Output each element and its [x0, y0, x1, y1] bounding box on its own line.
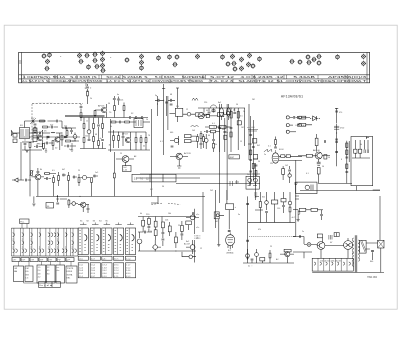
svg-text:3.0-2: 3.0-2: [102, 270, 106, 272]
svg-text:4k7: 4k7: [31, 118, 35, 120]
vert right: [295, 160, 297, 186]
svg-text:6.7-1: 6.7-1: [114, 276, 118, 278]
svg-text:5p6: 5p6: [69, 149, 72, 151]
ground p: [297, 220, 300, 222]
wires bl: [60, 199, 78, 208]
svg-text:80: 80: [47, 273, 50, 275]
circle m5: [87, 130, 91, 134]
wires a678: [59, 172, 69, 186]
left column stack: [335, 108, 349, 183]
wire lower: [170, 136, 197, 145]
resistor rd5: [269, 253, 271, 258]
wire a1: [28, 179, 32, 181]
caps d3: [255, 165, 258, 166]
contact r2c2: [22, 241, 24, 245]
cap C10: [80, 107, 83, 108]
ts7 wires: [298, 156, 330, 163]
SEC-OUT : x298-352 y105-196: [296, 111, 353, 194]
cap oC: [325, 140, 326, 143]
cap o2b: [335, 142, 338, 143]
ts12 wires: [186, 240, 193, 254]
transistor TS11: [190, 215, 195, 220]
transistor TS12: [190, 245, 195, 250]
junction: [61, 132, 62, 133]
top bus af: [138, 217, 196, 223]
junction m2: [118, 131, 119, 132]
resistor R10: [123, 106, 125, 111]
speaker: [378, 240, 384, 248]
vert wires cluster: [220, 104, 249, 160]
panel 2 mid: [90, 256, 100, 260]
svg-text:3p: 3p: [155, 95, 157, 97]
tube top wire: [275, 137, 277, 147]
transformer right winding: [358, 240, 360, 261]
svg-text:AF13A/08/S1: AF13A/08/S1: [281, 94, 303, 98]
junction af2: [175, 250, 176, 251]
long vertical right: [151, 109, 153, 189]
tube socket V35: [239, 66, 244, 71]
pot arrow: [30, 171, 34, 176]
tube socket V12: [100, 51, 105, 56]
coil L2 hatch: [26, 129, 28, 136]
svg-text:≠: ≠: [235, 206, 237, 209]
svg-text:4007: 4007: [230, 157, 235, 159]
am small r: [212, 110, 215, 112]
row2 wire2: [298, 124, 312, 126]
box g3: [186, 221, 192, 225]
svg-text:0.9-5: 0.9-5: [114, 265, 118, 267]
panel 5 low: [125, 263, 135, 278]
svg-text:25: 25: [270, 246, 272, 248]
svg-text:82: 82: [33, 122, 35, 124]
tube socket V33: [251, 63, 256, 68]
contact r1c6: [57, 233, 59, 237]
lower row parts: [22, 141, 34, 143]
mid parts r: [200, 134, 202, 139]
pos label box: [20, 219, 29, 224]
svg-text:0.1: 0.1: [160, 141, 163, 143]
cap m6: [97, 125, 100, 126]
am bus drops: [204, 108, 235, 113]
tube pins: [228, 245, 232, 249]
top cap o0: [335, 111, 338, 112]
capacitor C2: [165, 102, 168, 103]
mid resistor: [224, 135, 227, 139]
cap a1: [26, 179, 27, 182]
SEC-TUBE : indicator tube x205-252 y190-260: [214, 190, 295, 260]
tube socket V6: [85, 53, 90, 58]
wire r19: [203, 113, 210, 115]
cap a4: [47, 177, 48, 180]
am drop cap: [208, 112, 211, 113]
svg-text:30: 30: [162, 186, 164, 188]
contact r2c1: [13, 241, 15, 245]
SEC-MIXER : x70-110 y105-152: [65, 96, 148, 149]
below cap f2: [288, 170, 291, 171]
bus drop m1: [84, 118, 103, 132]
svg-text:0.5: 0.5: [240, 116, 243, 118]
box rd4: [260, 258, 265, 261]
det marks: [248, 182, 258, 185]
svg-text:=1=: =1=: [196, 214, 200, 216]
wire right drop1: [158, 96, 167, 116]
svg-text:2x ○: 2x ○: [248, 265, 253, 268]
top tick: [162, 88, 165, 90]
am vert r extra: [230, 132, 232, 137]
small parts row2: [43, 126, 48, 128]
drv extra cap1: [249, 135, 252, 136]
box top ticks: [366, 137, 369, 140]
contact r1c2: [22, 233, 24, 237]
svg-text:25: 25: [120, 153, 122, 155]
cap o2: [335, 139, 338, 140]
top caps feed2: [117, 99, 120, 100]
det wires c2: [290, 192, 299, 222]
f2 lower cap: [148, 227, 151, 228]
bottom box: [296, 182, 318, 194]
transistor TS2: [55, 137, 60, 142]
svg-text:1.1-7: 1.1-7: [126, 265, 130, 267]
svg-text:40: 40: [206, 110, 208, 112]
det cap k1: [265, 212, 268, 213]
p3 inner col: [105, 228, 107, 255]
resistor oR1: [315, 138, 318, 145]
svg-text:d.e: d.e: [57, 270, 61, 272]
bottom bus psu: [312, 260, 384, 272]
svg-text:6.1-5: 6.1-5: [79, 276, 83, 278]
extra r32: [43, 144, 45, 149]
p1 ticks: [79, 231, 86, 252]
transistor TS9: [81, 202, 86, 207]
cap f4: [145, 231, 146, 234]
lamp cross: [308, 243, 311, 246]
tube oval V-drv: [272, 153, 279, 163]
box t2: [214, 212, 219, 219]
contact r1c1: [13, 233, 15, 237]
vertical v2: [226, 104, 228, 200]
svg-text:o: o: [60, 56, 62, 58]
svg-text:1.6-8: 1.6-8: [102, 267, 106, 269]
ts6 bottom marks: [177, 166, 181, 168]
row2 marks: [290, 124, 293, 126]
wire p2: [317, 209, 323, 211]
svg-text:50: 50: [236, 104, 238, 106]
p4 curve: [120, 235, 122, 242]
pot P1: [31, 171, 33, 176]
wire down: [22, 146, 42, 151]
svg-text:AC: AC: [276, 258, 279, 261]
SEC-SWLEFT : switch contact table x12-77 y219-262: [11, 219, 78, 256]
svg-text:4k: 4k: [140, 213, 142, 215]
resistor m3: [93, 124, 95, 129]
cap bl6: [87, 209, 90, 210]
svg-text:7694 084: 7694 084: [367, 276, 378, 279]
wire sec: [366, 243, 378, 249]
svg-text:4n: 4n: [117, 94, 119, 96]
top wire: [293, 209, 298, 211]
wire ts3: [95, 104, 106, 118]
coil tall box: [33, 128, 37, 142]
svg-text:1 5: 1 5: [176, 106, 180, 108]
resistor R22: [206, 115, 209, 118]
input square 1: [13, 134, 17, 138]
p2 inner col: [93, 228, 95, 255]
wires psu mid: [304, 233, 344, 246]
transistor TS4: [125, 137, 130, 142]
transistor TS7 power: [315, 152, 322, 159]
SOCKETS: [42, 51, 367, 73]
mid left wires: [293, 237, 312, 253]
below caps stack: [317, 162, 321, 165]
resistor d4: [255, 170, 257, 175]
svg-text:o: o: [110, 57, 112, 59]
SEC-TOPCENTER : feed lines from socket strip down: [86, 84, 183, 122]
lower box2: [185, 140, 192, 143]
contact row 1: [13, 233, 74, 237]
svg-text:8p2: 8p2: [218, 102, 221, 104]
svg-text:1k: 1k: [360, 144, 362, 146]
table top line: [11, 227, 78, 229]
svg-text:25: 25: [78, 170, 80, 172]
det box b1: [271, 200, 277, 204]
row2 cap C13: [120, 121, 121, 124]
contact r3c3: [31, 249, 36, 253]
svg-text:3.5 7.0 12: 3.5 7.0 12: [134, 178, 149, 180]
capacitor C15: [158, 99, 159, 102]
resistor R19: [196, 113, 204, 116]
p5 ticks: [127, 231, 134, 252]
stack cap2: [345, 172, 348, 173]
contact r3c7: [62, 249, 67, 253]
capacitor C5: [66, 127, 67, 130]
wire caps: [126, 117, 148, 119]
right resistor R16: [140, 138, 142, 143]
arrow across C4: [38, 130, 44, 136]
right resistors R15: [135, 138, 137, 143]
svg-text:50: 50: [108, 103, 110, 105]
wire c8: [44, 142, 53, 144]
left col vert: [29, 150, 31, 196]
tube socket V8: [79, 59, 84, 64]
am bottom r: [212, 144, 214, 149]
contact dots: [13, 239, 72, 249]
am junction2: [230, 107, 231, 108]
svg-text:50: 50: [328, 157, 330, 159]
tube socket V36: [290, 59, 295, 64]
cap g2: [181, 234, 184, 235]
stack parts c: [346, 164, 348, 169]
svg-text:45: 45: [47, 270, 50, 272]
svg-text:68: 68: [95, 134, 97, 136]
resistor R4: [61, 135, 63, 140]
svg-text:AF: AF: [134, 155, 137, 158]
bottom bus m: [80, 148, 106, 150]
contact r2c3: [31, 241, 33, 245]
box t: [226, 204, 234, 210]
junction o: [336, 132, 337, 133]
junction m1: [113, 131, 114, 132]
vert wire d2: [252, 120, 254, 180]
extra cap c23: [37, 145, 38, 148]
contact r1c3: [31, 233, 33, 237]
extra row caps c20: [34, 124, 37, 125]
legend row2 circle: [286, 124, 289, 127]
svg-text:220: 220: [146, 214, 150, 216]
label cell 6: [57, 258, 65, 262]
svg-text:40: 40: [208, 135, 210, 137]
svg-text:B1: B1: [20, 125, 23, 127]
psu link wire: [293, 186, 296, 237]
ts8 inner: [35, 175, 40, 180]
can wires: [222, 104, 229, 120]
cap p4: [300, 235, 301, 238]
panel 3 mid: [102, 256, 112, 260]
svg-text:FM: FM: [26, 268, 29, 270]
selector contacts: [314, 262, 350, 265]
svg-text:d.e.f: d.e.f: [91, 258, 95, 260]
sec box hatch: [361, 240, 366, 252]
SEC-TUNER : upper-left AM/FM tuner block: [11, 102, 83, 153]
left row1 resistor: [299, 116, 306, 119]
SEC-PANELS : 5 switch panels x78-136 y217-279: [78, 221, 135, 278]
ts6 inner: [176, 154, 181, 159]
cap on v2: [218, 128, 221, 129]
capacitor C3: [33, 120, 34, 123]
resistor f6: [162, 222, 165, 228]
top caps feed: [113, 99, 116, 100]
lower box 6: [66, 266, 77, 283]
mid row resistor R14: [118, 136, 120, 141]
transistor TS8: [35, 174, 41, 180]
wire bl6: [87, 205, 89, 213]
cap p6: [329, 235, 332, 240]
am circle: [226, 112, 229, 115]
f5 wires: [152, 240, 161, 251]
label cell 3: [30, 258, 38, 262]
am junctions: [219, 107, 220, 108]
svg-text:6.3-7: 6.3-7: [91, 276, 95, 278]
resistor f2: [148, 218, 151, 224]
wire top link: [25, 121, 47, 128]
resistor R7: [66, 140, 71, 142]
rectifier circle: [344, 241, 353, 250]
inner resistor b2: [358, 149, 361, 153]
row blob 1: [47, 136, 50, 138]
vert left: [202, 192, 204, 232]
wire T1 out: [143, 121, 150, 123]
box circle: [305, 185, 309, 189]
label cell 7: [66, 258, 74, 262]
oval inner: [199, 114, 203, 117]
svg-text:0.1: 0.1: [268, 146, 271, 148]
tube socket V27: [239, 57, 244, 62]
svg-text:6V: 6V: [330, 242, 333, 244]
bus junction2: [79, 196, 80, 197]
stack parts a: [346, 143, 348, 148]
legend row3 circle: [286, 130, 289, 133]
tp1 inner: [317, 242, 323, 248]
det r2: [289, 207, 291, 212]
p3 ticks: [103, 231, 110, 252]
row2 resistor R12: [125, 121, 130, 123]
ts5 wires: [116, 159, 134, 166]
contact r3c8: [72, 249, 77, 253]
svg-text:. . . . . . . . . . . . .: . . . . . . . . . . . . . .: [38, 102, 53, 104]
below resistor: [317, 168, 320, 175]
extra circle q: [73, 135, 77, 139]
det circle 2: [254, 178, 258, 182]
svg-text:4.6-8: 4.6-8: [114, 273, 118, 275]
p4 ticks: [115, 231, 122, 252]
wire t2: [219, 210, 229, 230]
svg-text:68: 68: [170, 94, 172, 96]
row2 resistor: [209, 126, 216, 129]
mid wires: [201, 131, 206, 149]
contact r3c6: [57, 249, 59, 253]
wires right: [136, 132, 146, 150]
box pair d: [252, 139, 256, 143]
transistor TS5 big: [122, 156, 129, 163]
part bl2: [56, 195, 59, 202]
svg-text:a.c: a.c: [57, 267, 60, 269]
right link: [379, 196, 381, 240]
parts left: [80, 113, 82, 118]
det circle 1: [248, 178, 252, 182]
label cell 1: [12, 258, 20, 262]
cap t3: [228, 230, 231, 231]
wire vertical left: [110, 119, 112, 152]
svg-text:460: 460: [170, 132, 173, 134]
coil ticks: [33, 131, 37, 139]
resistor p7: [334, 233, 339, 237]
svg-text:6.9-3: 6.9-3: [126, 276, 130, 278]
svg-text:1.4-6: 1.4-6: [91, 267, 95, 269]
boxed resistor v2: [237, 112, 239, 119]
svg-text:AM: AM: [14, 270, 17, 273]
wire e: [279, 155, 302, 157]
stack parts b: [346, 150, 348, 155]
row1 wire: [296, 116, 307, 118]
ground t: [217, 245, 220, 247]
svg-text:8k: 8k: [40, 169, 42, 171]
row1 resistor: [298, 116, 302, 118]
panel 3 low: [102, 263, 112, 278]
drv extra r1: [250, 150, 252, 155]
column lines: [11, 228, 78, 256]
svg-text:4.8-0: 4.8-0: [126, 273, 130, 275]
tube socket V15: [101, 68, 106, 73]
wire a13: [92, 176, 99, 186]
ts5 inner: [122, 156, 127, 162]
svg-text:15: 15: [240, 141, 242, 143]
right resistor R17: [145, 138, 147, 143]
tube socket V23: [173, 62, 178, 67]
tube socket V39: [307, 60, 312, 65]
ts7 inner: [315, 153, 321, 159]
diode D1: [313, 116, 317, 121]
panel 4 mid: [114, 256, 124, 260]
parts box: [218, 113, 224, 117]
circle t: [216, 214, 219, 217]
af bottom wires: [182, 252, 196, 257]
det junction2: [274, 222, 275, 223]
wire mid h2: [176, 183, 260, 185]
svg-text:e•5•: e•5•: [49, 260, 53, 262]
drv extra cap3: [249, 160, 252, 161]
resistor R2 box: [175, 108, 183, 116]
tube socket V43: [335, 54, 340, 59]
long wire e2: [279, 159, 302, 161]
